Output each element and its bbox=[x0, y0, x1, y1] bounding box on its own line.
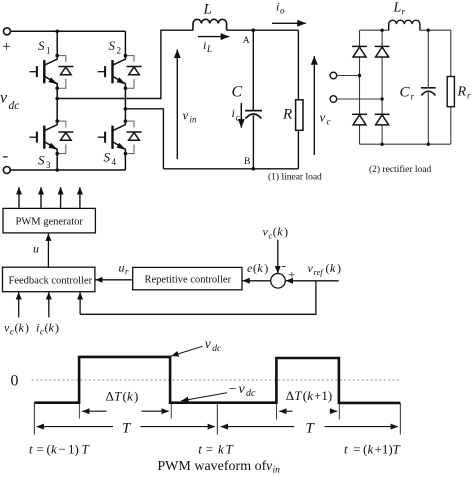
terminal plus bbox=[4, 28, 11, 35]
label v_c(k) top bbox=[263, 225, 289, 241]
label dT(k) bbox=[106, 388, 139, 403]
node B bbox=[252, 167, 256, 171]
wire left leg segments bbox=[56, 31, 58, 170]
svg-text:k: k bbox=[127, 388, 133, 403]
block Repetitive controller bbox=[133, 267, 242, 289]
label -v_dc waveform bbox=[229, 382, 256, 399]
svg-text:S: S bbox=[104, 150, 111, 165]
arrow u_r bbox=[95, 279, 132, 281]
arrow iL bbox=[198, 36, 229, 38]
arrow e(k) bbox=[243, 280, 271, 282]
label v_dc bbox=[0, 90, 19, 113]
dimension dT(k) bbox=[82, 410, 169, 412]
svg-text:−: − bbox=[59, 442, 66, 457]
inductor Lr bbox=[389, 20, 420, 30]
label t=(k-1)T bbox=[29, 442, 90, 457]
svg-text:v: v bbox=[320, 110, 326, 125]
label v_in bbox=[183, 108, 198, 125]
label Cr bbox=[400, 85, 415, 102]
transistor S4 bbox=[98, 121, 142, 154]
svg-text:S: S bbox=[109, 38, 116, 53]
label v_ref(k) bbox=[308, 261, 342, 277]
svg-text:k: k bbox=[307, 388, 313, 403]
svg-text:r: r bbox=[467, 91, 471, 101]
svg-text:-: - bbox=[3, 146, 9, 165]
svg-text:k: k bbox=[330, 261, 336, 275]
svg-text:t: t bbox=[344, 442, 348, 457]
svg-text:c: c bbox=[236, 113, 240, 123]
label v_dc waveform bbox=[205, 336, 222, 354]
resistor R branch bbox=[297, 30, 299, 169]
waveform v_in bbox=[34, 357, 400, 403]
svg-text:dc: dc bbox=[9, 100, 20, 112]
svg-text:o: o bbox=[280, 6, 285, 16]
label u_r bbox=[119, 261, 130, 277]
arrow v_in bbox=[176, 50, 178, 160]
svg-text:): ) bbox=[264, 261, 268, 275]
svg-text:S: S bbox=[38, 153, 45, 168]
svg-text:dc: dc bbox=[246, 388, 256, 399]
arrow io bbox=[272, 22, 306, 24]
svg-text:in: in bbox=[273, 466, 281, 476]
terminal rect bottom bbox=[330, 96, 337, 103]
diode D1 bbox=[352, 46, 367, 57]
svg-text:(: ( bbox=[273, 225, 277, 239]
arrow v_c(k) into FB bbox=[18, 292, 20, 317]
arrow v_c bbox=[313, 56, 315, 155]
svg-text:u: u bbox=[33, 242, 39, 256]
svg-text:T: T bbox=[114, 388, 122, 403]
svg-text:i: i bbox=[232, 106, 235, 120]
diode D3 bbox=[352, 114, 367, 125]
svg-text:+1): +1) bbox=[375, 442, 393, 457]
svg-text:C: C bbox=[232, 84, 243, 101]
label t=(k+1)T bbox=[344, 442, 401, 457]
wire right leg segments bbox=[124, 31, 126, 170]
svg-text:): ) bbox=[55, 321, 59, 335]
label S1 bbox=[38, 38, 51, 56]
svg-text:): ) bbox=[134, 388, 138, 403]
svg-text:+: + bbox=[2, 39, 10, 55]
svg-text:(: ( bbox=[253, 261, 257, 275]
capacitor C plates bbox=[245, 110, 262, 112]
arrow feedforward into FB bbox=[79, 292, 81, 314]
label io bbox=[276, 0, 285, 16]
svg-text:t: t bbox=[198, 442, 202, 457]
wire rectifier right leg bbox=[381, 30, 383, 144]
dimension dT(k+1) bbox=[279, 410, 337, 412]
zero dotted line bbox=[32, 379, 400, 381]
svg-text:PWM waveform of: PWM waveform of bbox=[157, 459, 266, 474]
tick t=kT bbox=[216, 403, 218, 435]
node A bbox=[252, 28, 256, 32]
svg-text:r: r bbox=[402, 7, 406, 17]
capacitor Cr branch bbox=[427, 30, 429, 144]
capacitor C branch wire bbox=[252, 30, 254, 110]
summing junction bbox=[271, 274, 286, 289]
label Rr bbox=[457, 85, 472, 101]
wire bridge to load bottom bbox=[125, 109, 163, 169]
svg-text:ref: ref bbox=[314, 267, 325, 277]
svg-text:T: T bbox=[226, 442, 234, 457]
svg-text:T: T bbox=[82, 442, 90, 457]
tick t=(k+1)T bbox=[399, 403, 401, 435]
svg-text:=: = bbox=[37, 442, 44, 457]
svg-text:Δ: Δ bbox=[106, 388, 114, 403]
label Lr bbox=[393, 1, 406, 17]
svg-text:(: ( bbox=[326, 261, 330, 275]
block PWM generator bbox=[3, 208, 95, 233]
svg-text:t: t bbox=[29, 442, 33, 457]
svg-text:v: v bbox=[0, 90, 8, 107]
block Feedback controller bbox=[3, 267, 95, 292]
svg-text:): ) bbox=[25, 321, 29, 335]
wire top rail bbox=[11, 30, 126, 32]
svg-text:Repetitive controller: Repetitive controller bbox=[145, 275, 232, 286]
label S4 bbox=[104, 150, 117, 168]
label i_c(k) bottom bbox=[36, 321, 59, 337]
wire rectifier top rail bbox=[360, 30, 451, 76]
svg-text:-: - bbox=[282, 258, 286, 273]
inductor L bbox=[193, 19, 227, 30]
dimension T second period bbox=[221, 426, 398, 428]
label S2 bbox=[109, 38, 122, 56]
caption PWM waveform bbox=[157, 459, 280, 476]
svg-text:= (: = ( bbox=[351, 442, 368, 457]
terminal rect top bbox=[330, 72, 337, 79]
svg-text:i: i bbox=[203, 38, 206, 52]
svg-text:v: v bbox=[205, 336, 211, 351]
label v_c(k) bottom bbox=[4, 321, 29, 337]
label dT(k+1) bbox=[286, 388, 332, 403]
transistor S2 bbox=[98, 56, 142, 89]
label iL bbox=[203, 38, 212, 54]
svg-text:r: r bbox=[125, 267, 129, 277]
svg-text:L: L bbox=[203, 2, 212, 18]
svg-text:k: k bbox=[51, 442, 57, 457]
svg-text:(1) linear load: (1) linear load bbox=[268, 172, 322, 183]
svg-text:1): 1) bbox=[68, 442, 79, 457]
svg-text:T: T bbox=[122, 421, 132, 437]
svg-text:k: k bbox=[19, 321, 25, 335]
label e(k) bbox=[247, 261, 268, 275]
label t=kT bbox=[198, 442, 233, 457]
leader -v_dc bbox=[181, 393, 227, 401]
svg-text:c: c bbox=[327, 117, 331, 127]
svg-text:): ) bbox=[337, 261, 341, 275]
svg-text:i: i bbox=[276, 0, 279, 14]
edge ticks for dT dimensions bbox=[79, 404, 339, 420]
svg-text:c: c bbox=[40, 327, 44, 337]
svg-text:1: 1 bbox=[46, 46, 51, 56]
svg-text:R: R bbox=[457, 85, 467, 100]
svg-text:+: + bbox=[289, 268, 296, 282]
svg-text:+1): +1) bbox=[314, 388, 332, 403]
wire v_ref feedforward branch bbox=[80, 281, 316, 315]
wire rectifier left leg bbox=[359, 30, 361, 144]
svg-text:T: T bbox=[294, 388, 302, 403]
svg-text:T: T bbox=[306, 421, 316, 437]
svg-text:0: 0 bbox=[11, 373, 19, 390]
svg-text:C: C bbox=[400, 85, 411, 101]
svg-text:(2) rectifier load: (2) rectifier load bbox=[369, 164, 431, 175]
wire rectifier bottom rail bbox=[360, 143, 451, 145]
wire bottom rail bbox=[10, 169, 125, 171]
wire bridge to filter top bbox=[57, 30, 193, 98]
junction dots bridge bbox=[55, 30, 127, 172]
transistor S1 (IGBT with freewheel diode) bbox=[30, 56, 74, 89]
svg-text:dc: dc bbox=[212, 344, 222, 354]
leader v_dc bbox=[171, 346, 202, 356]
svg-text:k: k bbox=[368, 442, 374, 457]
label S3 bbox=[38, 153, 51, 171]
svg-text:Δ: Δ bbox=[286, 388, 294, 403]
svg-text:i: i bbox=[36, 321, 39, 335]
svg-text:−: − bbox=[229, 382, 237, 397]
arrow ic bbox=[240, 103, 242, 128]
gate drive arrows bbox=[19, 187, 80, 208]
svg-text:L: L bbox=[206, 44, 212, 54]
junction dots rectifier bbox=[358, 29, 430, 146]
svg-text:c: c bbox=[10, 327, 14, 337]
wire L to A to R branch bbox=[227, 29, 299, 31]
diode D2 bbox=[375, 46, 390, 57]
svg-text:=: = bbox=[206, 442, 213, 457]
arrow i_c(k) into FB bbox=[48, 292, 50, 317]
svg-text:k: k bbox=[49, 321, 55, 335]
svg-text:B: B bbox=[244, 157, 250, 167]
svg-text:4: 4 bbox=[112, 157, 117, 167]
svg-text:r: r bbox=[411, 92, 415, 102]
svg-text:k: k bbox=[257, 261, 263, 275]
svg-text:k: k bbox=[277, 225, 283, 239]
svg-text:2: 2 bbox=[117, 46, 122, 56]
dimension T first period bbox=[37, 426, 215, 428]
tick t=(k-1)T bbox=[33, 403, 35, 435]
arrow u bbox=[47, 234, 49, 268]
svg-text:R: R bbox=[282, 107, 292, 123]
svg-text:in: in bbox=[190, 115, 198, 125]
arrow v_c(k) into summing bbox=[277, 240, 279, 274]
svg-text:T: T bbox=[393, 442, 401, 457]
terminal minus bbox=[3, 167, 10, 174]
svg-text:v: v bbox=[183, 108, 189, 123]
label ic bbox=[232, 106, 240, 123]
svg-text:PWM generator: PWM generator bbox=[16, 217, 84, 228]
diode D4 bbox=[375, 114, 390, 125]
resistor Rr branch bbox=[447, 77, 454, 107]
wire v_ref line bbox=[286, 280, 339, 282]
wire terminals to bridge bbox=[337, 75, 360, 77]
label v_c bbox=[320, 110, 331, 127]
svg-text:A: A bbox=[243, 36, 250, 46]
wire bottom of load bbox=[163, 168, 298, 170]
svg-text:3: 3 bbox=[46, 160, 51, 170]
svg-text:k: k bbox=[218, 442, 224, 457]
svg-text:): ) bbox=[284, 225, 288, 239]
svg-text:u: u bbox=[119, 261, 125, 275]
svg-text:L: L bbox=[393, 1, 402, 16]
svg-text:v: v bbox=[239, 382, 246, 397]
transistor S3 bbox=[30, 121, 74, 154]
svg-text:S: S bbox=[38, 38, 45, 53]
svg-text:Feedback controller: Feedback controller bbox=[9, 276, 93, 287]
